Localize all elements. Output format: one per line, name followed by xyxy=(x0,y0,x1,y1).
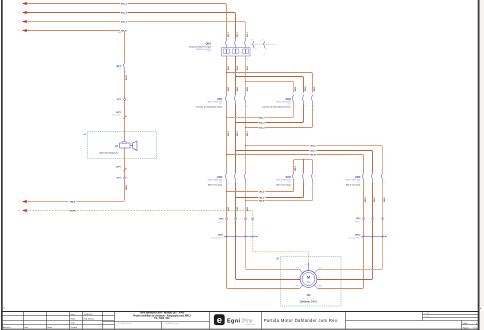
svg-text:2: 2 xyxy=(228,106,229,108)
svg-text:4: 4 xyxy=(305,106,306,108)
svg-text:Motor Vinculado: Motor Vinculado xyxy=(208,184,223,187)
svg-text:3: 3 xyxy=(370,171,371,173)
svg-text:W2-2: W2-2 xyxy=(295,87,297,92)
svg-text:W1-1: W1-1 xyxy=(247,66,249,71)
svg-text:5: 5 xyxy=(243,171,244,173)
svg-text:Verif.: Verif. xyxy=(71,323,76,325)
svg-text:4: 4 xyxy=(374,184,375,186)
svg-text:4: 4 xyxy=(237,106,238,108)
svg-text:2: 2 xyxy=(295,184,296,186)
svg-text:ca 400: ca 400 xyxy=(425,313,430,315)
svg-text:contribuicao_eng: contribuicao_eng xyxy=(166,322,179,325)
svg-text:Alteração: Alteração xyxy=(3,326,11,329)
svg-text:4: 4 xyxy=(237,184,238,186)
svg-text:PE 2x: PE 2x xyxy=(218,222,223,224)
svg-text:W2-1: W2-1 xyxy=(237,87,239,92)
svg-text:-WP1: -WP1 xyxy=(116,112,122,114)
svg-text:-XM1: -XM1 xyxy=(218,219,224,221)
svg-text:Motor Vinculado: Motor Vinculado xyxy=(276,184,291,187)
svg-text:1U1: 1U1 xyxy=(296,268,299,270)
svg-text:W3-2: W3-2 xyxy=(295,166,297,171)
svg-text:W1-L1: W1-L1 xyxy=(121,3,128,5)
svg-text:L3: L3 xyxy=(18,21,20,23)
svg-text:2: 2 xyxy=(365,184,366,186)
svg-text:W3-U: W3-U xyxy=(310,145,316,147)
svg-text:W1-N: W1-N xyxy=(126,75,128,80)
svg-text:4CV 3x2.5mm²: 4CV 3x2.5mm² xyxy=(348,236,360,239)
svg-text:1: 1 xyxy=(127,99,128,101)
svg-text:5: 5 xyxy=(380,171,381,173)
svg-text:2: 2 xyxy=(228,59,229,61)
svg-text:25.7: 25.7 xyxy=(208,51,212,53)
svg-text:14: 14 xyxy=(255,49,257,51)
svg-text:Egni: Egni xyxy=(227,318,241,324)
svg-text:W2-U: W2-U xyxy=(259,191,265,193)
svg-text:L2: L2 xyxy=(18,12,20,14)
svg-text:W1-N: W1-N xyxy=(121,30,127,32)
svg-text:W4-2: W4-2 xyxy=(364,197,367,202)
svg-text:6: 6 xyxy=(247,106,248,108)
svg-text:M: M xyxy=(307,275,310,279)
svg-text:W2-2: W2-2 xyxy=(305,87,307,92)
svg-text:5: 5 xyxy=(243,93,244,95)
svg-text:1.2: 1.2 xyxy=(116,149,118,151)
svg-text:6: 6 xyxy=(247,184,248,186)
svg-text:W3-1: W3-1 xyxy=(228,131,230,136)
svg-text:W2-L1: W2-L1 xyxy=(259,117,266,119)
svg-text:Data: Data xyxy=(24,326,28,329)
svg-text:3: 3 xyxy=(233,171,234,173)
svg-text:4: 4 xyxy=(476,323,477,325)
svg-text:5: 5 xyxy=(310,171,311,173)
svg-text:2U1: 2U1 xyxy=(319,268,322,270)
svg-text:Dahlander 2/4CV: Dahlander 2/4CV xyxy=(300,301,318,304)
svg-text:2: 2 xyxy=(228,184,229,186)
svg-text:2W1: 2W1 xyxy=(319,285,323,287)
svg-text:1: 1 xyxy=(122,61,123,63)
svg-text:W2-1: W2-1 xyxy=(247,87,249,92)
svg-text:13: 13 xyxy=(251,40,253,42)
svg-text:3: 3 xyxy=(301,171,302,173)
svg-text:4x0.75mm²: 4x0.75mm² xyxy=(112,114,121,117)
svg-text:+L1: +L1 xyxy=(118,32,121,34)
svg-text:3: 3 xyxy=(233,93,234,95)
svg-text:21: 21 xyxy=(262,40,264,42)
svg-text:21.7: 21.7 xyxy=(288,104,291,106)
svg-text:W4-N: W4-N xyxy=(125,184,128,189)
svg-text:W2-L3: W2-L3 xyxy=(259,127,266,129)
svg-text:+A: +A xyxy=(83,133,86,136)
svg-text:5: 5 xyxy=(243,38,244,40)
svg-text:W2-V: W2-V xyxy=(259,197,265,199)
svg-text:24.7: 24.7 xyxy=(357,182,360,184)
svg-text:engenharia: engenharia xyxy=(246,324,255,326)
svg-text:1W1: 1W1 xyxy=(295,285,299,287)
svg-text:Data: Data xyxy=(71,313,75,316)
svg-text:Contator de Velocidade Direta: Contator de Velocidade Direta xyxy=(196,106,224,109)
svg-text:5: 5 xyxy=(310,93,311,95)
svg-text:6: 6 xyxy=(314,106,315,108)
svg-text:1: 1 xyxy=(291,171,292,173)
svg-text:1: 1 xyxy=(224,38,225,40)
svg-text:W1-1: W1-1 xyxy=(228,32,230,37)
svg-text:2V1: 2V1 xyxy=(318,278,321,280)
svg-text:1: 1 xyxy=(224,93,225,95)
svg-text:W1-1: W1-1 xyxy=(247,32,249,37)
svg-text:Editor: Editor xyxy=(71,317,76,320)
svg-text:Advertidor Magnético: Advertidor Magnético xyxy=(99,151,119,154)
svg-text:W1-L2: W1-L2 xyxy=(121,12,128,14)
svg-text:1: 1 xyxy=(224,171,225,173)
svg-text:21.7: 21.7 xyxy=(219,104,222,106)
svg-text:W3-1: W3-1 xyxy=(247,131,249,136)
svg-text:-WM2: -WM2 xyxy=(354,235,361,237)
svg-text:W4-PE: W4-PE xyxy=(70,209,77,212)
svg-text:3: 3 xyxy=(233,38,234,40)
svg-text:e: e xyxy=(217,315,222,326)
svg-text:PE 2x: PE 2x xyxy=(355,221,360,223)
svg-text:6: 6 xyxy=(314,184,315,186)
svg-text:24.7: 24.7 xyxy=(219,182,222,184)
svg-text:Motor Vinculado: Motor Vinculado xyxy=(346,184,361,187)
svg-text:W1-1: W1-1 xyxy=(228,66,230,71)
svg-text:6: 6 xyxy=(247,59,248,61)
svg-text:3: 3 xyxy=(301,93,302,95)
svg-text:Partida Motor Dahlander com Re: Partida Motor Dahlander com Rev. xyxy=(264,318,339,323)
svg-text:W4-2: W4-2 xyxy=(373,197,376,202)
svg-text:-M1: -M1 xyxy=(306,293,311,297)
svg-text:1: 1 xyxy=(361,171,362,173)
svg-text:2x: 2x xyxy=(308,298,310,300)
svg-text:Contator de Velocidade Reversa: Contator de Velocidade Reversa xyxy=(262,106,292,109)
svg-text:3~: 3~ xyxy=(307,280,311,284)
svg-text:TG_7364_000: TG_7364_000 xyxy=(154,317,170,320)
svg-text:24.7: 24.7 xyxy=(288,182,291,184)
svg-text:Torre Medidora 36H - Nordial Q: Torre Medidora 36H - Nordial QIT - 4043 xyxy=(139,312,184,315)
svg-text:1V1: 1V1 xyxy=(296,278,299,280)
svg-text:1: 1 xyxy=(291,93,292,95)
svg-text:Disjuntor Motor Principal: Disjuntor Motor Principal xyxy=(189,45,211,48)
svg-text:2: 2 xyxy=(126,72,127,74)
svg-text:-XM1: -XM1 xyxy=(355,218,361,220)
svg-text:1. 799: 1. 799 xyxy=(425,316,430,318)
svg-text:W3-V: W3-V xyxy=(311,150,317,152)
svg-text:+M: +M xyxy=(276,259,279,261)
svg-text:-WM1: -WM1 xyxy=(217,235,224,237)
svg-text:L1: L1 xyxy=(18,3,20,5)
svg-text:W1-L3: W1-L3 xyxy=(121,21,128,23)
svg-text:L1: L1 xyxy=(18,30,20,32)
svg-text:TE_verificacao_de: TE_verificacao_de xyxy=(118,322,132,325)
svg-text:W2-1: W2-1 xyxy=(228,87,230,92)
svg-text:W4-N: W4-N xyxy=(70,200,76,203)
svg-text:4: 4 xyxy=(237,59,238,61)
svg-text:W3-1: W3-1 xyxy=(237,131,239,136)
svg-text:2: 2 xyxy=(295,106,296,108)
svg-text:-WP1: -WP1 xyxy=(116,166,122,168)
svg-text:W2-2: W2-2 xyxy=(314,87,316,92)
svg-text:W2-W: W2-W xyxy=(259,200,265,202)
svg-text:-XP1: -XP1 xyxy=(116,178,122,180)
svg-text:W1-1: W1-1 xyxy=(237,32,239,37)
svg-text:4: 4 xyxy=(305,184,306,186)
svg-text:12/08/2021: 12/08/2021 xyxy=(84,314,93,316)
svg-text:2: 2 xyxy=(264,54,265,56)
svg-text:4CV 3x2.5mm²: 4CV 3x2.5mm² xyxy=(211,236,223,239)
svg-text:W1-1: W1-1 xyxy=(237,66,239,71)
svg-text:-XP1: -XP1 xyxy=(116,99,122,101)
svg-text:6: 6 xyxy=(384,184,385,186)
svg-text:W3-W: W3-W xyxy=(310,154,316,156)
svg-text:2.1: 2.1 xyxy=(119,68,122,70)
svg-text:22: 22 xyxy=(265,49,267,51)
svg-text:-QL1: -QL1 xyxy=(116,65,122,68)
svg-text:Eng. Vinicius: Eng. Vinicius xyxy=(84,318,94,320)
svg-text:W2-L2: W2-L2 xyxy=(259,122,266,124)
svg-text:W4-2: W4-2 xyxy=(383,197,386,202)
svg-text:-QM1: -QM1 xyxy=(205,42,212,45)
